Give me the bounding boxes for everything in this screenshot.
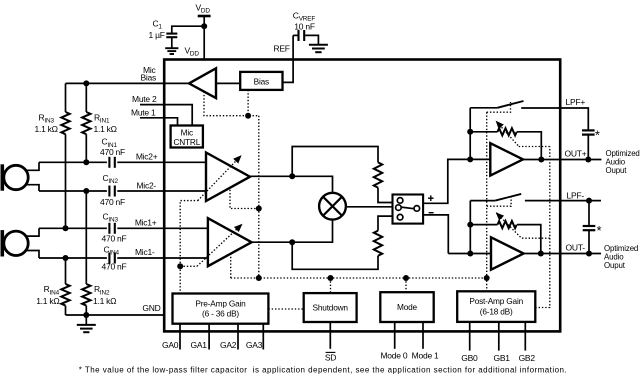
wire upper channel vertical	[469, 108, 471, 160]
pin GB2	[519, 322, 536, 363]
capacitor CIN2	[100, 173, 125, 207]
svg-text:1.1 kΩ: 1.1 kΩ	[93, 296, 116, 306]
svg-text:Shutdown: Shutdown	[313, 303, 349, 313]
rheostat lower post-amp gain	[470, 221, 541, 254]
ground at GND rail	[77, 315, 96, 332]
node bias rail / RIN1	[83, 80, 89, 86]
svg-text:470 nF: 470 nF	[102, 233, 127, 243]
dashed control Pre-Amp Gain to Shutdown	[268, 308, 303, 310]
ground under C1	[165, 48, 178, 54]
node OUT- cap junction	[586, 251, 592, 257]
svg-text:GA2: GA2	[220, 340, 237, 350]
wire lower amp input	[448, 253, 491, 255]
svg-text:Mic1+: Mic1+	[135, 217, 157, 227]
capacitor CIN4	[102, 244, 127, 271]
svg-text:Pre-Amp Gain: Pre-Amp Gain	[195, 299, 246, 309]
dashed gain arrow rheostat upper	[496, 121, 550, 146]
svg-text:470 nF: 470 nF	[100, 147, 125, 157]
wire Mic1+ to IC	[117, 227, 208, 229]
op-amp post-amp lower	[491, 237, 524, 269]
wire Mic1- lead	[39, 257, 107, 259]
dashed control rail to preamp1	[230, 253, 232, 278]
wire Mute 1	[140, 118, 178, 126]
wire LPF- cap lead	[588, 201, 590, 226]
wire bias buffer to Bias block	[216, 82, 240, 84]
resistor summing upper	[374, 162, 382, 187]
dashed control rail	[231, 277, 487, 279]
dashed control to LPF- switch	[487, 196, 511, 206]
node dashed bias junction	[245, 113, 251, 119]
dashed control to Pre-Amp Gain block	[179, 266, 181, 293]
wire Mic Bias rail	[66, 82, 190, 84]
pin GA1	[191, 324, 210, 351]
op-amp preamp Mic2	[206, 153, 250, 202]
svg-text:Mute 2: Mute 2	[132, 94, 157, 104]
wire lower resistor to switch	[378, 216, 393, 231]
op-amp preamp Mic1	[208, 218, 252, 266]
op-amp mic bias buffer	[189, 68, 216, 98]
capacitor LPF- (*)	[583, 224, 602, 238]
resistor RIN2	[82, 191, 116, 315]
wire C1 to VDD node	[172, 26, 204, 33]
wire mixer output to switch	[346, 206, 393, 208]
switch LPF+	[470, 101, 560, 108]
wire Mic2+ to IC	[117, 161, 206, 163]
svg-text:* The value of the low-pass fi: * The value of the low-pass filter capac…	[79, 366, 567, 375]
wire LPF+ external	[560, 108, 588, 130]
pin GB0	[461, 322, 478, 363]
node RIN1 to Mic2+	[83, 159, 89, 165]
node GND junction	[83, 312, 89, 318]
dashed gain arrow preamp1	[180, 224, 242, 266]
node LPF- cap junction	[586, 198, 592, 204]
label plus output	[428, 195, 434, 201]
node lower amp input	[467, 251, 473, 257]
dashed control bias buffer to junction	[204, 92, 259, 116]
rheostat upper post-amp gain	[470, 128, 541, 159]
wire preamp1 output to mixer bottom	[292, 220, 332, 243]
node OUT+ cap junction	[585, 157, 591, 163]
svg-text:Post-Amp Gain: Post-Amp Gain	[469, 296, 523, 306]
svg-text:OUT+: OUT+	[565, 149, 587, 159]
dashed control Post-Amp Gain vertical	[535, 147, 550, 308]
svg-text:Bias: Bias	[254, 76, 269, 86]
wire REF to Bias block	[284, 59, 294, 82]
resistor summing lower	[374, 231, 382, 256]
dashed control to Mode block	[405, 278, 407, 292]
svg-text:Mode 0: Mode 0	[380, 351, 407, 361]
node dashed preamp2 branch	[256, 206, 262, 212]
resistor RIN4	[36, 258, 69, 315]
wire OUT+	[523, 159, 601, 161]
svg-text:(6-18 dB): (6-18 dB)	[480, 306, 513, 316]
node dashed rail right	[484, 275, 490, 281]
wire switch plus to upper amp	[423, 159, 490, 203]
microphone MIC2	[1, 162, 40, 191]
label minus output	[429, 212, 434, 214]
svg-text:1.1 kΩ: 1.1 kΩ	[36, 296, 59, 306]
node dashed rail left	[256, 275, 262, 281]
node Mic1- to RIN4	[63, 255, 69, 261]
svg-text:1.1 kΩ: 1.1 kΩ	[35, 124, 58, 134]
pin Mode 1	[412, 322, 439, 361]
wire preamp2 output to mixer top	[292, 176, 332, 193]
svg-text:GB0: GB0	[461, 353, 478, 363]
pin GA0	[162, 324, 180, 351]
svg-text:1 µF: 1 µF	[149, 30, 165, 40]
dashed control to LPF+ switch	[487, 102, 511, 112]
svg-text:SD: SD	[325, 353, 336, 363]
label optimized audio output lower	[604, 244, 638, 270]
dashed control branch to preamp2	[230, 187, 259, 209]
wire preamp Mic2 output	[250, 175, 292, 177]
node preamp1 output	[289, 239, 295, 245]
label Mic Bias pin	[140, 65, 156, 83]
wire LPF- external	[560, 200, 601, 202]
capacitor LPF+ (*)	[582, 129, 600, 143]
wire LPF- cap to OUT-	[588, 231, 590, 254]
wire CVREF to ground	[305, 35, 318, 44]
svg-text:Mic1-: Mic1-	[135, 247, 155, 257]
label optimized audio output upper	[606, 149, 640, 175]
svg-text:GA3: GA3	[246, 340, 263, 350]
wire Mic1- to IC	[117, 257, 208, 259]
switch LPF-	[470, 194, 560, 201]
pin GA3	[246, 324, 263, 351]
wire VDD down to IC	[203, 16, 205, 60]
pin GB1	[493, 322, 510, 363]
wire Mic2+ lead	[39, 161, 107, 163]
op-amp post-amp upper	[490, 143, 523, 175]
node OUT+ internal	[538, 157, 544, 163]
Mic CNTRL block	[171, 126, 203, 148]
node OUT- internal	[538, 251, 544, 257]
wire Mute 2	[140, 105, 192, 126]
wire preamp1 output down to summing resistor	[292, 242, 378, 269]
svg-text:10 nF: 10 nF	[294, 22, 315, 32]
svg-text:Mic2-: Mic2-	[136, 181, 156, 191]
dashed control vertical right	[486, 112, 488, 291]
node dashed rail mode	[403, 275, 409, 281]
svg-text:Mute 1: Mute 1	[131, 107, 156, 117]
svg-text:470 nF: 470 nF	[100, 197, 125, 207]
svg-text:1.1 kΩ: 1.1 kΩ	[94, 124, 117, 134]
capacitor CVREF	[293, 11, 316, 42]
svg-text:GB2: GB2	[519, 353, 536, 363]
IC boundary box	[164, 60, 560, 332]
VDD supply symbol	[196, 3, 211, 17]
svg-text:Bias: Bias	[140, 72, 156, 82]
svg-text:(6 - 36 dB): (6 - 36 dB)	[202, 309, 239, 319]
mixer multiplier	[319, 193, 346, 220]
microphone MIC1	[1, 228, 40, 258]
wire Mic2- to IC	[117, 190, 206, 192]
node lower channel rheostat tap	[467, 222, 473, 228]
node dashed preamp gain junction	[177, 263, 183, 269]
wire OUT-	[524, 253, 601, 255]
node Mic2- to RIN2	[83, 188, 89, 194]
node preamp2 output	[289, 173, 295, 179]
svg-text:*: *	[597, 224, 602, 238]
svg-text:Mode 1: Mode 1	[412, 351, 439, 361]
svg-text:Ouput: Ouput	[604, 261, 626, 270]
wire GND rail	[66, 314, 164, 316]
capacitor CIN3	[102, 212, 127, 244]
svg-text:GB1: GB1	[493, 353, 510, 363]
dashed gain arrow preamp2	[180, 156, 241, 266]
Mode block	[380, 292, 433, 322]
svg-text:OUT-: OUT-	[566, 242, 586, 252]
pin Mode 0	[380, 322, 407, 361]
node upper amp input	[467, 156, 473, 162]
svg-text:GA0: GA0	[162, 340, 179, 350]
node dashed rail shutdown	[328, 275, 334, 281]
wire preamp Mic1 output	[252, 241, 293, 243]
wire switch minus to lower amp	[423, 215, 448, 254]
ground under CVREF	[309, 45, 328, 53]
node upper channel rheostat tap	[467, 129, 473, 135]
dashed control Bias block drop	[247, 90, 249, 116]
wire Mic1+ lead	[39, 227, 107, 229]
capacitor C1	[149, 19, 178, 41]
svg-text:470 nF: 470 nF	[102, 262, 127, 272]
wire REF pin to CVREF	[292, 35, 294, 60]
wire Mic2- lead	[39, 190, 107, 192]
resistor RIN1	[82, 83, 117, 162]
svg-text:Ouput: Ouput	[606, 166, 628, 175]
wire LPF+ cap to OUT+	[587, 135, 589, 159]
svg-text:Mic: Mic	[181, 127, 193, 137]
svg-text:GND: GND	[142, 303, 160, 313]
dashed control to Shutdown block	[330, 278, 332, 293]
pin SD	[325, 322, 336, 363]
pin GA2	[220, 324, 238, 351]
svg-text:REF: REF	[274, 44, 290, 54]
wire C1 to ground	[171, 38, 173, 48]
svg-text:LPF-: LPF-	[567, 191, 585, 201]
wire preamp2 output up to summing resistor	[292, 147, 378, 177]
resistor RIN3	[35, 83, 70, 228]
dashed gain arrow rheostat lower	[496, 213, 549, 238]
svg-text:LPF+: LPF+	[566, 97, 586, 107]
wire upper resistor to switch	[378, 188, 393, 203]
Shutdown block	[304, 293, 357, 322]
wire lower channel vertical	[469, 201, 471, 254]
Pre-Amp Gain block	[173, 294, 269, 324]
svg-text:CNTRL: CNTRL	[173, 137, 200, 147]
dashed control vertical center-left	[258, 116, 260, 278]
svg-text:Mic2+: Mic2+	[136, 151, 158, 161]
svg-text:*: *	[595, 129, 600, 143]
node VDD/C1 junction	[201, 23, 207, 29]
capacitor CIN1	[100, 137, 125, 168]
switch block selector	[393, 195, 424, 224]
node RIN3 to Mic1+	[63, 225, 69, 231]
Post-Amp Gain block	[457, 291, 535, 322]
svg-text:GA1: GA1	[191, 340, 208, 350]
svg-text:Mode: Mode	[397, 302, 418, 312]
Bias block	[240, 72, 282, 90]
